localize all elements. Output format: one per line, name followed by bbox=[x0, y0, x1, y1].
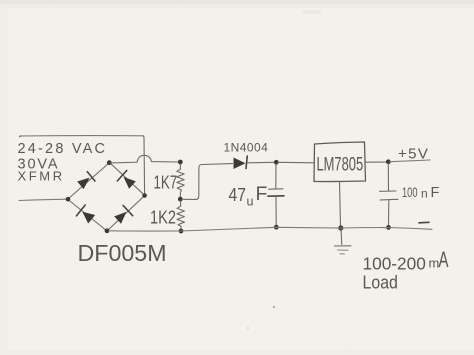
faint smudge top bbox=[303, 10, 321, 14]
capacitor C2 100nF bbox=[380, 190, 397, 192]
node: C1 bottom on ground rail bbox=[274, 225, 279, 230]
wire: junction down to C1 bbox=[275, 164, 277, 188]
wire: top rail corner down to bridge right node bbox=[143, 136, 145, 195]
wire: regulator ground pin bbox=[340, 182, 341, 227]
wire: bottom ground rail bbox=[109, 227, 433, 231]
wire: diode cathode to junction bbox=[247, 161, 275, 164]
paper speck bbox=[247, 327, 249, 329]
node bottom bbox=[105, 228, 110, 233]
resistor R2 1K2 bbox=[177, 201, 184, 229]
bridge rectifier DF005M diamond bbox=[68, 163, 145, 231]
node: junction between 1K7 and 1K2 bbox=[178, 197, 183, 202]
resistor R1 1K7 bbox=[177, 164, 184, 197]
diode D5 1N4004 bbox=[234, 158, 246, 170]
paper speck bbox=[273, 306, 275, 308]
diode D3 bottom-left (points to left node) bbox=[76, 205, 96, 225]
diode D4 bottom-right (points to right node) bbox=[113, 205, 133, 225]
diode D1 top-left (points to top node) bbox=[77, 172, 95, 190]
diode D2 top-right (points to top node) bbox=[117, 170, 137, 190]
node top bbox=[107, 160, 112, 165]
wire: left AC lead bbox=[19, 199, 67, 200]
ground symbol bbox=[340, 229, 343, 245]
wire: top AC rail bbox=[20, 135, 144, 137]
node left bbox=[66, 197, 71, 202]
wire: +5V lead bbox=[390, 160, 430, 162]
node right bbox=[142, 193, 147, 198]
node: regulator ground on rail bbox=[338, 225, 343, 230]
wire: regulator output bbox=[366, 161, 388, 163]
regulator U1 LM7805 box bbox=[314, 142, 366, 182]
node: 1K2 bottom on ground rail bbox=[179, 229, 184, 234]
node: C2 bottom on rail bbox=[386, 225, 391, 230]
node: diode/cap/regulator junction bbox=[274, 160, 279, 165]
wire: junction to regulator input bbox=[278, 161, 313, 164]
wire: + output from top node with hop over AC wire bbox=[110, 155, 179, 163]
capacitor C1 47uF bbox=[269, 188, 284, 190]
node: junction +out / 1K7 top bbox=[178, 160, 183, 165]
minus terminal label bbox=[419, 221, 429, 224]
wire: from R1/R2 junction up to diode anode bbox=[182, 164, 233, 200]
wire: +5V junction down to C2 bbox=[387, 164, 389, 191]
node: +5V junction bbox=[386, 159, 391, 164]
